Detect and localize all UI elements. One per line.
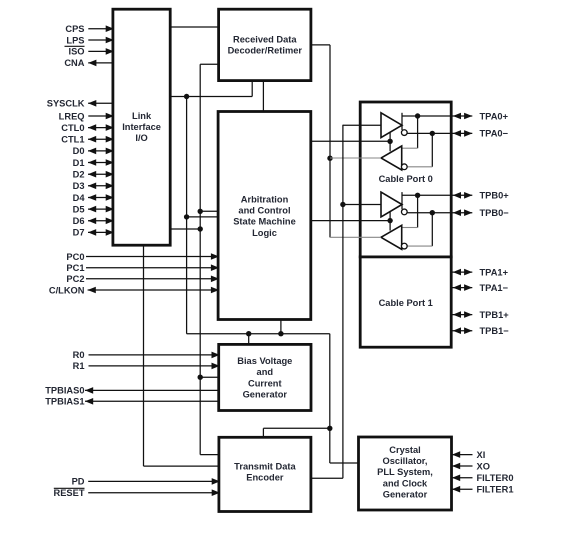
svg-text:and: and <box>257 367 274 377</box>
pin D0 (bidirectional arrow to Link) <box>88 150 113 152</box>
svg-text:and Control: and Control <box>238 206 290 216</box>
junction at x=280.9 y=333.7 with stub to Arbitration bottom <box>278 331 283 336</box>
pin CNA (output arrow from Link) <box>88 62 113 64</box>
wire transmit feed from Transmit Encoder right edge up x=342.9 <box>311 477 343 479</box>
wire tx input to TPB0 driver <box>343 204 381 206</box>
pin TPA1&#8722; (bidirectional pair at Cable Port 1) <box>451 287 472 289</box>
svg-text:D3: D3 <box>73 181 85 191</box>
junction bus D branch to Link right edge at y=229.0 <box>198 226 203 231</box>
svg-text:TPA1+: TPA1+ <box>480 267 509 277</box>
pin PD (input arrow to Transmit Encoder) <box>88 480 219 482</box>
pin CPS (input arrow to Link) <box>88 28 113 30</box>
pin CTL0 (bidirectional arrow to Link) <box>88 127 113 129</box>
wire TPB0- down to receiver inverting input <box>431 213 433 246</box>
block: Transmit Data Encoder <box>219 437 311 511</box>
svg-text:D4: D4 <box>73 193 86 203</box>
svg-text:D0: D0 <box>73 146 85 156</box>
bubble TPB0 driver inverting output <box>401 209 407 215</box>
svg-text:SYSCLK: SYSCLK <box>47 99 85 109</box>
pin ISO with overline (input arrow to Link) <box>88 50 113 52</box>
junction TPB0+ at x=417.6 <box>415 193 420 198</box>
svg-text:CNA: CNA <box>64 58 84 68</box>
svg-text:CTL1: CTL1 <box>61 135 84 145</box>
svg-text:CTL0: CTL0 <box>61 123 84 133</box>
pin PC0 (input arrow to Arbitration) <box>86 256 218 258</box>
svg-text:I/O: I/O <box>135 133 147 143</box>
wire tx input to TPA0 driver <box>343 124 381 126</box>
bubble TPA0 receiver inverting input <box>401 164 407 170</box>
wire TPB0 receiver output (grey) to collect bus <box>330 236 381 238</box>
svg-text:XO: XO <box>477 461 490 471</box>
pin CTL1 (bidirectional arrow to Link) <box>88 138 113 140</box>
wire bus B horizontal y=333.7 <box>187 333 330 335</box>
svg-text:LREQ: LREQ <box>59 111 85 121</box>
junction TPA0 enable <box>387 139 392 144</box>
svg-text:Current: Current <box>248 378 282 388</box>
wire TPA0+ down to receiver input <box>417 116 419 148</box>
junction on Link-Received wire at x=186.6 <box>184 94 189 99</box>
svg-text:PD: PD <box>72 477 85 487</box>
wire TPA0 driver output bar <box>401 113 403 130</box>
svg-text:D5: D5 <box>73 204 85 214</box>
junction TPA0- at x=432.3 <box>430 131 435 136</box>
wire TPB0 enable from Arbitration <box>311 220 390 222</box>
pin TPB1&#8722; (bidirectional pair at Cable Port 1) <box>451 330 472 332</box>
wire TPA0+ output line <box>402 115 472 117</box>
junction at x=248.7 y=333.7 with stub to Bias top <box>246 331 251 336</box>
svg-text:TPA0−: TPA0− <box>480 129 509 139</box>
pin TPBIAS0 (output arrow from Bias) <box>85 389 219 391</box>
wire bus B branch into Arbitration left at y=216.9 <box>187 216 219 218</box>
pin D4 (bidirectional arrow to Link) <box>88 197 113 199</box>
svg-text:and Clock: and Clock <box>383 478 428 488</box>
pin TPA0&#8722; (bidirectional pair) <box>453 130 461 137</box>
bubble TPA0 driver inverting output <box>401 130 407 136</box>
wire Link to Received Data (top) <box>170 26 218 28</box>
wire TPA0- output line <box>407 132 472 134</box>
svg-text:PC1: PC1 <box>66 263 84 273</box>
pin D2 (bidirectional arrow to Link) <box>88 173 113 175</box>
wire TPB0 enable vertical between buffers <box>389 212 391 231</box>
wire Received Data bottom to Arbitration top at x=263.4 <box>262 81 264 112</box>
svg-text:R0: R0 <box>73 350 85 360</box>
block: Crystal Oscillator, PLL System, and Clock Generator <box>359 437 452 510</box>
wire TPB0 driver output bar <box>401 192 403 209</box>
svg-text:TPA0+: TPA0+ <box>480 111 509 121</box>
svg-text:State Machine: State Machine <box>233 217 296 227</box>
block: Cable Port 1 <box>360 257 451 347</box>
svg-text:Crystal: Crystal <box>389 445 421 455</box>
wire from Link bottom at x=143.5 into Transmit Encoder at y=466.1 <box>143 245 145 466</box>
svg-text:Encoder: Encoder <box>246 473 284 483</box>
svg-text:Decoder/Retimer: Decoder/Retimer <box>228 46 303 56</box>
svg-text:TPA1−: TPA1− <box>480 283 509 293</box>
buffer TPA0 receiver (triangle) <box>381 146 402 170</box>
svg-text:D2: D2 <box>73 170 85 180</box>
pin D6 (bidirectional arrow to Link) <box>88 220 113 222</box>
pin TPB0+ (bidirectional pair) <box>453 192 461 199</box>
bubble TPB0 receiver inverting input <box>401 243 407 249</box>
block: Cable Port 0 <box>360 102 451 257</box>
svg-text:Cable Port 0: Cable Port 0 <box>379 174 433 184</box>
svg-text:TPB1+: TPB1+ <box>480 310 510 320</box>
pin TPBIAS1 (output arrow from Bias) <box>85 400 219 402</box>
svg-text:Generator: Generator <box>383 489 428 499</box>
pin TPB0&#8722; (bidirectional pair) <box>453 209 461 216</box>
buffer TPB0 driver (triangle) <box>381 192 402 217</box>
pin R1 (input arrow to Bias) <box>89 365 219 367</box>
svg-text:TPB0+: TPB0+ <box>480 191 510 201</box>
pin LPS (input arrow to Link) <box>88 39 113 41</box>
wire bus B vertical x=186.6 down to y=333.7 <box>186 97 188 334</box>
svg-text:TPB1−: TPB1− <box>480 326 510 336</box>
pin RESET with overline (input arrow to Transmit Encoder) <box>88 492 219 494</box>
wire bus B vertical x=329.8 down to y=428.3 <box>329 334 331 429</box>
pin PC2 (input arrow to Arbitration) <box>86 278 218 280</box>
wire TPB0- output line <box>407 212 472 214</box>
junction x=329.8 y=428.3 <box>327 426 332 431</box>
svg-text:Transmit Data: Transmit Data <box>234 462 296 472</box>
svg-text:Interface: Interface <box>122 122 161 132</box>
wire receiver-collect from Received Data right edge down x=330 <box>311 44 330 46</box>
pin D1 (bidirectional arrow to Link) <box>88 162 113 164</box>
svg-text:RESET: RESET <box>54 488 85 498</box>
svg-text:Link: Link <box>132 111 152 121</box>
pin TPA1+ (bidirectional pair at Cable Port 1) <box>451 271 472 273</box>
block: Arbitration and Control State Machine Logic <box>218 112 311 320</box>
wire Link right edge to Received Data bottom (via x=252) <box>170 96 252 98</box>
pin TPA0+ (bidirectional pair) <box>453 113 461 120</box>
wire TPB0+ down to receiver input <box>417 195 419 227</box>
wire bus B down then right into Crystal block at y=463 <box>329 428 331 463</box>
svg-text:TPBIAS1: TPBIAS1 <box>45 397 84 407</box>
wire Transmit Encoder top stub to junction at y=428.3 <box>262 428 264 437</box>
wire TPA0- down to receiver inverting input <box>431 133 433 166</box>
svg-text:D7: D7 <box>73 228 85 238</box>
svg-text:C/LKON: C/LKON <box>49 285 85 295</box>
svg-text:ISO: ISO <box>68 47 84 57</box>
svg-text:CPS: CPS <box>65 24 84 34</box>
svg-text:Bias Voltage: Bias Voltage <box>237 356 292 366</box>
svg-text:Arbitration: Arbitration <box>241 195 289 205</box>
svg-text:D6: D6 <box>73 216 85 226</box>
block: Link Interface I/O <box>113 9 170 245</box>
svg-text:Generator: Generator <box>243 389 288 399</box>
pin FILTER1 (input arrow to Crystal block) <box>452 488 473 490</box>
wire TPB0+ output line <box>402 194 472 196</box>
pin TPB1+ (bidirectional pair at Cable Port 1) <box>451 314 472 316</box>
svg-text:XI: XI <box>477 450 486 460</box>
junction bus B branch <box>184 214 189 219</box>
block: Bias Voltage and Current Generator <box>219 344 311 410</box>
pin XO (input arrow to Crystal block) <box>452 465 473 467</box>
svg-text:PLL System,: PLL System, <box>377 467 433 477</box>
svg-text:Cable Port 1: Cable Port 1 <box>379 298 433 308</box>
pin R0 (input arrow to Bias) <box>89 354 219 356</box>
pin LREQ (input arrow to Link) <box>88 115 113 117</box>
svg-text:Logic: Logic <box>252 228 277 238</box>
pin XI (input arrow to Crystal block) <box>452 454 473 456</box>
svg-text:D1: D1 <box>73 158 85 168</box>
pin D3 (bidirectional arrow to Link) <box>88 185 113 187</box>
pin D7 (bidirectional arrow to Link) <box>88 231 113 233</box>
svg-text:PC2: PC2 <box>66 274 84 284</box>
wire TPA0 enable vertical between buffers <box>389 132 391 151</box>
buffer TPA0 driver (triangle) <box>381 113 402 138</box>
svg-text:FILTER0: FILTER0 <box>477 473 514 483</box>
pin FILTER0 (input arrow to Crystal block) <box>452 477 473 479</box>
junction TPA0+ at x=417.6 <box>415 113 420 118</box>
wire bus D from Received Data left edge down to Transmit Encoder <box>200 63 218 65</box>
wire TPA0 enable from Arbitration <box>311 140 390 142</box>
block: Received Data Decoder/Retimer <box>219 9 311 80</box>
buffer TPB0 receiver (triangle) <box>381 225 402 249</box>
junction TPB0 enable <box>387 218 392 223</box>
wire TPA0 receiver output (grey) to collect bus <box>330 157 381 159</box>
pin D5 (bidirectional arrow to Link) <box>88 208 113 210</box>
junction TPB0- at x=432.3 <box>430 210 435 215</box>
junction transmit feed branch y=204.5 <box>340 202 345 207</box>
svg-text:Oscillator,: Oscillator, <box>383 456 428 466</box>
svg-text:R1: R1 <box>73 361 85 371</box>
pin PC1 (input arrow to Arbitration) <box>86 267 218 269</box>
pin C/LKON (bidirectional arrow to Arbitration) <box>88 289 219 291</box>
svg-text:PC0: PC0 <box>66 252 84 262</box>
pin SYSCLK (output arrow from Link) <box>88 102 113 104</box>
svg-text:TPBIAS0: TPBIAS0 <box>45 386 84 396</box>
svg-text:TPB0−: TPB0− <box>480 208 510 218</box>
junction rx collect at y=158.2 <box>327 156 332 161</box>
svg-text:FILTER1: FILTER1 <box>477 485 514 495</box>
svg-text:Received Data: Received Data <box>233 34 297 44</box>
svg-text:LPS: LPS <box>66 35 84 45</box>
junction bus D branch into Bias left at y=377.2 <box>198 375 203 380</box>
junction bus D branch into Arbitration left at y=211.3 <box>198 209 203 214</box>
